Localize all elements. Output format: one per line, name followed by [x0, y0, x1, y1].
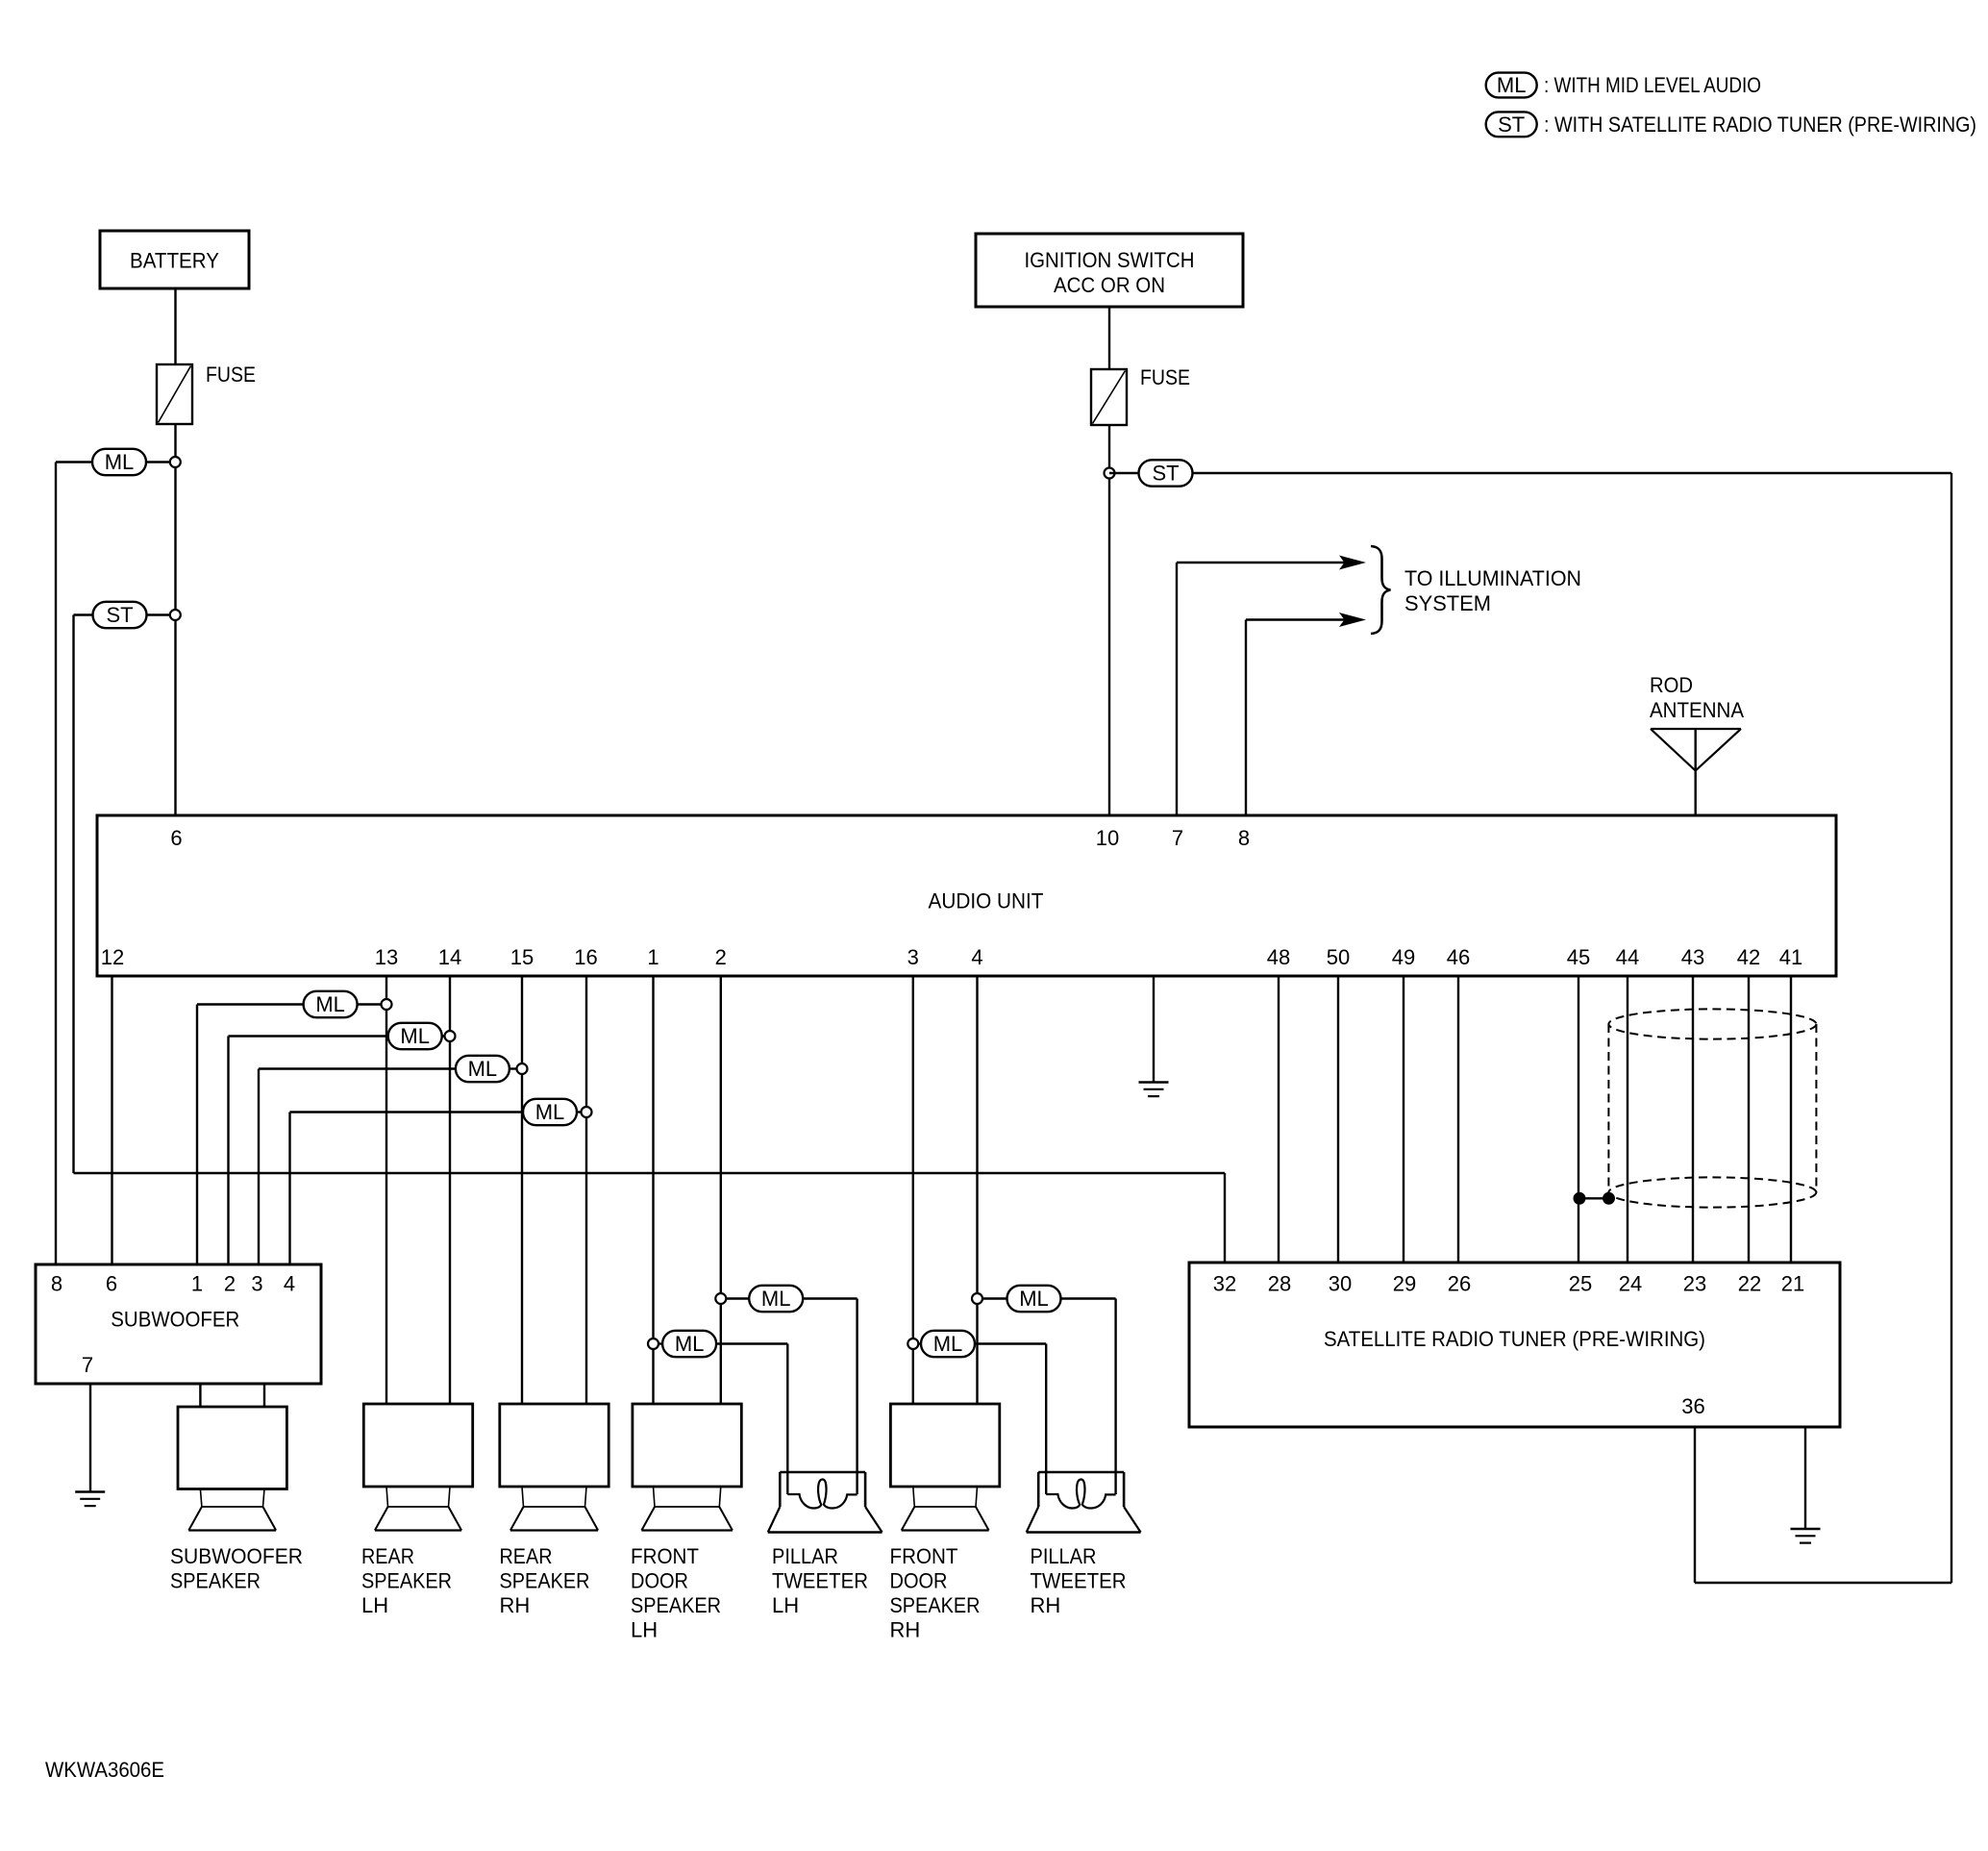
connector ST (battery feed) — [93, 602, 147, 628]
wire subwoofer to subwoofer speaker (+) — [199, 1384, 201, 1407]
junction ML on wire 14 — [445, 1031, 456, 1041]
svg-text:7: 7 — [1172, 826, 1183, 850]
rear speaker LH — [363, 1404, 472, 1487]
svg-text:ROD: ROD — [1650, 673, 1693, 697]
svg-text:SPEAKER: SPEAKER — [361, 1569, 452, 1593]
svg-text:LH: LH — [631, 1618, 658, 1642]
svg-text:1: 1 — [647, 945, 659, 969]
svg-text:FRONT: FRONT — [631, 1544, 699, 1568]
wire shield drain to wire 45 — [1579, 1197, 1609, 1199]
svg-text:12: 12 — [101, 945, 124, 969]
svg-text:23: 23 — [1683, 1272, 1706, 1296]
svg-text:15: 15 — [510, 945, 534, 969]
wire audio pin 14 to rear speaker LH (-) — [449, 976, 451, 1404]
svg-text:13: 13 — [375, 945, 398, 969]
svg-text:41: 41 — [1779, 945, 1802, 969]
junction ML on wire 15 — [517, 1063, 528, 1074]
wire subwoofer to subwoofer speaker (-) — [263, 1384, 265, 1407]
wire ST branch to satellite tuner pin 32 — [74, 613, 94, 615]
wire ML oval to junction 15 — [509, 1067, 517, 1069]
svg-text:21: 21 — [1781, 1272, 1804, 1296]
wire audio pin 2 to front door speaker LH (-) — [720, 976, 722, 1404]
svg-text:LH: LH — [361, 1593, 388, 1617]
svg-text:6: 6 — [106, 1272, 117, 1296]
wire audio pin 45 to tuner pin 25 — [1578, 976, 1579, 1263]
wire junction 1 to ML oval — [659, 1342, 662, 1344]
svg-text:IGNITION SWITCH: IGNITION SWITCH — [1025, 248, 1195, 272]
svg-text:SUBWOOFER: SUBWOOFER — [111, 1308, 239, 1332]
wire ML to pillar tweeter LH (+) — [803, 1297, 857, 1299]
wire ML link subwoofer pin 3 — [259, 1067, 456, 1069]
wire junction 2 to ML oval — [726, 1297, 749, 1299]
wire ML oval to junction 14 — [442, 1035, 445, 1037]
svg-text:30: 30 — [1329, 1272, 1352, 1296]
connector ML (battery feed) — [92, 449, 146, 475]
svg-text:42: 42 — [1737, 945, 1760, 969]
ignition switch — [976, 234, 1243, 307]
svg-text:36: 36 — [1681, 1394, 1704, 1418]
wire audio pin 43 to tuner pin 23 — [1692, 976, 1694, 1263]
ground subwoofer — [75, 1490, 105, 1493]
svg-text:1: 1 — [191, 1272, 203, 1296]
svg-text:ML: ML — [675, 1332, 705, 1356]
wire audio pin 48 to tuner pin 28 — [1278, 976, 1280, 1263]
svg-text:22: 22 — [1738, 1272, 1761, 1296]
connector ML (tweeter LH +) — [749, 1286, 803, 1312]
fuse F1 — [157, 364, 192, 424]
svg-text:SPEAKER: SPEAKER — [170, 1569, 261, 1593]
svg-text:ML: ML — [535, 1100, 565, 1124]
wire ML link subwoofer pin 1 — [197, 1003, 304, 1005]
svg-text:45: 45 — [1567, 945, 1590, 969]
svg-text:RH: RH — [500, 1593, 531, 1617]
junction ML on wire 4 — [972, 1293, 982, 1304]
svg-text:10: 10 — [1096, 826, 1119, 850]
svg-text:24: 24 — [1619, 1272, 1642, 1296]
svg-text:ML: ML — [761, 1287, 791, 1311]
svg-text:ANTENNA: ANTENNA — [1650, 698, 1744, 722]
svg-text:SPEAKER: SPEAKER — [890, 1593, 981, 1617]
wire audio pin 42 to tuner pin 22 — [1748, 976, 1750, 1263]
svg-text:7: 7 — [82, 1353, 93, 1377]
svg-text:50: 50 — [1327, 945, 1350, 969]
svg-text:44: 44 — [1616, 945, 1639, 969]
svg-text:PILLAR: PILLAR — [772, 1544, 838, 1568]
wire ST ignition to satellite tuner pin 36 — [1192, 472, 1951, 474]
wire audio unit case ground — [1153, 976, 1155, 1083]
connector ML (subwoofer 3) — [456, 1056, 509, 1082]
svg-text:REAR: REAR — [361, 1544, 414, 1568]
svg-text:43: 43 — [1681, 945, 1704, 969]
wire audio pin 12 to subwoofer pin 6 — [111, 976, 112, 1264]
wire ML oval to junction 16 — [577, 1111, 582, 1113]
junction dot on shield — [1603, 1192, 1615, 1205]
front door speaker LH — [633, 1404, 741, 1487]
subwoofer speaker — [178, 1407, 286, 1489]
svg-text:TO ILLUMINATION: TO ILLUMINATION — [1404, 566, 1581, 590]
fuse F2 — [1091, 369, 1127, 425]
wire audio pin 16 to rear speaker RH (-) — [585, 976, 587, 1404]
junction dot on wire 45 — [1574, 1192, 1586, 1205]
connector ML (subwoofer 2) — [388, 1023, 442, 1049]
connector ML (subwoofer 4) — [523, 1099, 577, 1125]
junction ST on ignition feed — [1105, 468, 1115, 479]
svg-text:REAR: REAR — [500, 1544, 553, 1568]
wire audio pin 4 to front door speaker RH (-) — [976, 976, 978, 1404]
svg-text:TWEETER: TWEETER — [772, 1569, 868, 1593]
svg-text:ML: ML — [400, 1024, 430, 1048]
svg-text:SATELLITE RADIO TUNER (PRE-WIR: SATELLITE RADIO TUNER (PRE-WIRING) — [1324, 1327, 1705, 1351]
junction ML on wire 3 — [907, 1338, 918, 1349]
svg-text:ST: ST — [1498, 113, 1525, 137]
wire ML to pillar tweeter RH (-) — [975, 1342, 1046, 1344]
svg-text:WKWA3606E: WKWA3606E — [45, 1758, 164, 1782]
svg-text:ML: ML — [1497, 73, 1527, 97]
satellite radio tuner — [1189, 1263, 1840, 1427]
svg-text:LH: LH — [772, 1593, 799, 1617]
ground satellite tuner — [1791, 1528, 1821, 1531]
svg-text:FRONT: FRONT — [890, 1544, 958, 1568]
svg-text:48: 48 — [1267, 945, 1290, 969]
svg-text:2: 2 — [715, 945, 727, 969]
audio unit — [97, 815, 1836, 976]
junction ML on wire 1 — [648, 1338, 659, 1349]
svg-text:TWEETER: TWEETER — [1031, 1569, 1127, 1593]
subwoofer — [36, 1264, 321, 1384]
svg-text:4: 4 — [284, 1272, 295, 1296]
svg-text:29: 29 — [1393, 1272, 1416, 1296]
wire ML branch to subwoofer pin 8 — [56, 461, 92, 463]
wire ML link subwoofer pin 2 — [229, 1035, 388, 1037]
wire fuse F2 to audio unit pin 10 — [1108, 425, 1110, 815]
wire battery to fuse F1 — [174, 288, 176, 364]
svg-text:ML: ML — [933, 1332, 963, 1356]
junction ML on battery feed — [170, 457, 181, 467]
wire audio unit pin 7 to illumination system — [1176, 563, 1178, 815]
svg-text:FUSE: FUSE — [206, 363, 256, 387]
wire ignition switch to fuse F2 — [1108, 307, 1110, 369]
wire audio pin 1 to front door speaker LH (+) — [652, 976, 654, 1404]
wire audio pin 46 to tuner pin 26 — [1457, 976, 1459, 1263]
wire audio pin 15 to rear speaker RH (+) — [521, 976, 523, 1404]
wire audio pin 44 to tuner pin 24 — [1627, 976, 1628, 1263]
wire rod antenna to audio unit — [1694, 729, 1696, 815]
svg-text:FUSE: FUSE — [1140, 365, 1190, 389]
svg-text:16: 16 — [574, 945, 597, 969]
connector ML (tweeter RH -) — [921, 1331, 975, 1357]
svg-text:4: 4 — [971, 945, 982, 969]
junction ST on battery feed — [170, 610, 181, 620]
svg-text:ML: ML — [315, 992, 345, 1016]
wire fuse F1 to audio unit pin 6 — [174, 424, 176, 815]
svg-text:2: 2 — [224, 1272, 236, 1296]
junction ML on wire 2 — [715, 1293, 726, 1304]
svg-text:ML: ML — [468, 1057, 498, 1081]
shield (dashed cylinder) around antenna cable — [1608, 1009, 1816, 1038]
svg-text:DOOR: DOOR — [631, 1569, 688, 1593]
svg-text:SYSTEM: SYSTEM — [1404, 591, 1491, 615]
rear speaker RH — [500, 1404, 609, 1487]
pillar tweeter RH — [1038, 1471, 1124, 1474]
battery — [100, 231, 249, 288]
svg-text:BATTERY: BATTERY — [130, 249, 219, 273]
arrowhead illumination 1 — [1339, 556, 1366, 570]
wire ML oval to junction — [146, 461, 170, 463]
svg-text:ST: ST — [106, 603, 133, 627]
junction ML on wire 16 — [582, 1107, 592, 1117]
wire audio pin 3 to front door speaker RH (+) — [912, 976, 914, 1404]
svg-text:: WITH MID LEVEL AUDIO: : WITH MID LEVEL AUDIO — [1544, 73, 1761, 97]
brace to illumination system — [1371, 546, 1391, 634]
svg-text:ML: ML — [105, 450, 135, 474]
wire ST oval to junction — [146, 613, 170, 615]
svg-text:RH: RH — [1031, 1593, 1061, 1617]
svg-text:ML: ML — [1019, 1287, 1049, 1311]
svg-text:3: 3 — [251, 1272, 262, 1296]
connector ST (ignition feed) — [1139, 460, 1193, 486]
svg-text:28: 28 — [1268, 1272, 1291, 1296]
pillar tweeter LH — [780, 1471, 865, 1474]
wire junction to ST oval — [1109, 472, 1139, 474]
rod antenna — [1651, 728, 1741, 730]
wire audio pin 50 to tuner pin 30 — [1337, 976, 1339, 1263]
svg-text:DOOR: DOOR — [890, 1569, 948, 1593]
wire junction 4 to ML oval — [982, 1297, 1007, 1299]
svg-text:49: 49 — [1392, 945, 1415, 969]
wire ML link subwoofer pin 4 — [290, 1111, 524, 1113]
wire audio pin 41 to tuner pin 21 — [1790, 976, 1792, 1263]
arrowhead illumination 2 — [1339, 613, 1366, 627]
svg-text:RH: RH — [890, 1618, 921, 1642]
wire junction 3 to ML oval — [918, 1342, 921, 1344]
ground audio unit — [1139, 1081, 1169, 1084]
wire satellite tuner ground — [1804, 1427, 1806, 1529]
svg-text:SPEAKER: SPEAKER — [631, 1593, 721, 1617]
connector ML (subwoofer 1) — [304, 991, 358, 1017]
svg-text:32: 32 — [1213, 1272, 1236, 1296]
svg-text:25: 25 — [1569, 1272, 1592, 1296]
svg-text:ST: ST — [1152, 462, 1179, 486]
connector ML (tweeter RH +) — [1007, 1286, 1061, 1312]
svg-text:26: 26 — [1448, 1272, 1471, 1296]
connector ML (tweeter LH -) — [662, 1331, 716, 1357]
legend connector symbol ST — [1486, 112, 1537, 137]
svg-text:: WITH SATELLITE RADIO TUNER (: : WITH SATELLITE RADIO TUNER (PRE-WIRING… — [1544, 113, 1976, 137]
front door speaker RH — [890, 1404, 999, 1487]
svg-text:SPEAKER: SPEAKER — [500, 1569, 590, 1593]
svg-text:3: 3 — [907, 945, 919, 969]
svg-text:AUDIO UNIT: AUDIO UNIT — [929, 889, 1044, 913]
wire subwoofer pin 7 to ground — [89, 1384, 91, 1492]
wire audio unit pin 8 to illumination system — [1245, 620, 1247, 816]
svg-text:8: 8 — [51, 1272, 62, 1296]
wire audio pin 13 to rear speaker LH (+) — [385, 976, 387, 1404]
wire ML to pillar tweeter RH (+) — [1061, 1297, 1116, 1299]
wire ML to pillar tweeter LH (-) — [716, 1342, 787, 1344]
legend connector symbol ML — [1486, 73, 1537, 98]
svg-text:ACC OR ON: ACC OR ON — [1054, 273, 1165, 297]
svg-text:8: 8 — [1238, 826, 1250, 850]
svg-text:PILLAR: PILLAR — [1031, 1544, 1097, 1568]
svg-text:46: 46 — [1447, 945, 1470, 969]
wire audio pin 49 to tuner pin 29 — [1403, 976, 1404, 1263]
svg-text:6: 6 — [170, 826, 182, 850]
wire ML oval to junction 13 — [358, 1003, 382, 1005]
svg-text:14: 14 — [438, 945, 461, 969]
svg-text:SUBWOOFER: SUBWOOFER — [170, 1544, 303, 1568]
junction ML on wire 13 — [382, 999, 392, 1010]
